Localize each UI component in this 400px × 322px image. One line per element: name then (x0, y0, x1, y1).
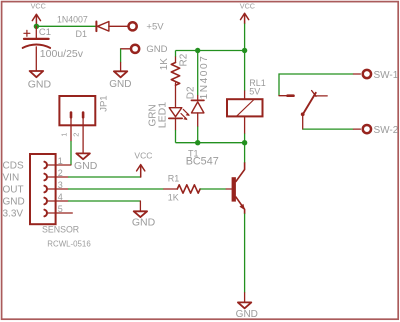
terminal SW-2 (354, 125, 399, 136)
junction dot (34, 24, 39, 29)
resistor R1 1K (164, 174, 200, 203)
ground (emitter) (236, 302, 258, 319)
svg-text:D2: D2 (185, 86, 196, 99)
terminal +5V (129, 22, 165, 33)
svg-text:GND: GND (74, 160, 98, 172)
svg-text:1N4007: 1N4007 (199, 55, 210, 100)
svg-text:5V: 5V (249, 87, 260, 97)
svg-text:R1: R1 (168, 174, 180, 184)
capacitor C1 (23, 26, 84, 70)
svg-text:VCC: VCC (31, 2, 46, 11)
svg-text:VCC: VCC (134, 150, 152, 160)
svg-text:+5V: +5V (146, 22, 164, 33)
relay RL1 coil (227, 78, 266, 134)
svg-text:5: 5 (58, 204, 63, 214)
wire D2 to rail (197, 127, 199, 143)
svg-text:GND: GND (3, 197, 25, 208)
svg-text:SW-2: SW-2 (374, 125, 399, 136)
svg-text:4: 4 (58, 192, 63, 202)
LED1 GRN (148, 102, 190, 130)
svg-text:1N4007: 1N4007 (57, 15, 88, 25)
svg-text:SW-1: SW-1 (374, 70, 399, 81)
svg-text:100u/25v: 100u/25v (40, 48, 84, 60)
node collector rail (176, 142, 245, 144)
svg-text:VIN: VIN (3, 173, 20, 184)
transistor T1 BC547 (186, 148, 245, 213)
svg-text:1K: 1K (159, 58, 170, 71)
wire GND terminal (121, 48, 131, 50)
wire VIN to VCC (68, 176, 141, 178)
terminal GND (131, 44, 168, 55)
svg-text:VCC: VCC (240, 2, 255, 11)
svg-text:R2: R2 (179, 53, 190, 66)
wire R1 to base (200, 188, 226, 190)
relay contact (switch) (279, 74, 354, 129)
svg-text:GND: GND (28, 78, 52, 90)
svg-text:JP1: JP1 (99, 95, 110, 111)
wire emitter to ground (244, 214, 246, 293)
svg-text:OUT: OUT (3, 185, 24, 196)
node VCC rail (176, 50, 245, 52)
svg-text:D1: D1 (76, 29, 88, 39)
wire coil bottom (244, 134, 246, 143)
svg-text:2: 2 (72, 133, 81, 137)
connector JP1 (59, 95, 109, 153)
svg-text:C1: C1 (39, 27, 51, 38)
diode D1 1N4007 (57, 15, 109, 40)
connector SENSOR RCWL-0516 (3, 154, 92, 249)
svg-text:1: 1 (59, 133, 68, 137)
supply VCC (sensor VIN) (134, 150, 152, 177)
wire GND (sensor pin4) (68, 200, 140, 202)
ground (C1) (28, 71, 52, 90)
supply VCC (top right) (240, 2, 255, 24)
wire JP1 pin1 to sensor pin1 (70, 141, 72, 165)
wire OUT net (68, 188, 164, 190)
wire coil top (244, 51, 246, 91)
svg-text:GND: GND (109, 79, 131, 90)
wire common to SW-2 (303, 128, 354, 130)
svg-text:GND: GND (146, 44, 167, 55)
svg-text:RCWL-0516: RCWL-0516 (47, 240, 91, 249)
svg-text:GND: GND (132, 216, 156, 228)
diode D2 1N4007 (185, 51, 210, 127)
wire D1 to +5V (109, 25, 128, 27)
terminal SW-1 (354, 70, 399, 81)
svg-text:1: 1 (58, 156, 63, 166)
svg-text:BC547: BC547 (186, 156, 219, 168)
wire VCC to rail (244, 24, 246, 51)
svg-text:1K: 1K (168, 192, 179, 202)
ground (terminal) (109, 71, 131, 90)
svg-text:GND: GND (236, 309, 258, 320)
svg-text:3: 3 (58, 180, 63, 190)
wire VCC net (36, 25, 96, 27)
svg-text:LED1: LED1 (157, 102, 169, 128)
supply VCC (top-left) (31, 2, 46, 27)
svg-text:2: 2 (58, 168, 63, 178)
svg-text:CDS: CDS (3, 161, 24, 172)
svg-text:SENSOR: SENSOR (42, 225, 79, 235)
wire LED1 to rail (175, 130, 177, 143)
ground (sensor pin4) (132, 211, 156, 228)
ground (JP1 pin2) (74, 153, 98, 172)
resistor R2 1K (159, 51, 190, 108)
wire collector (244, 143, 246, 163)
svg-text:3.3V: 3.3V (3, 209, 24, 220)
